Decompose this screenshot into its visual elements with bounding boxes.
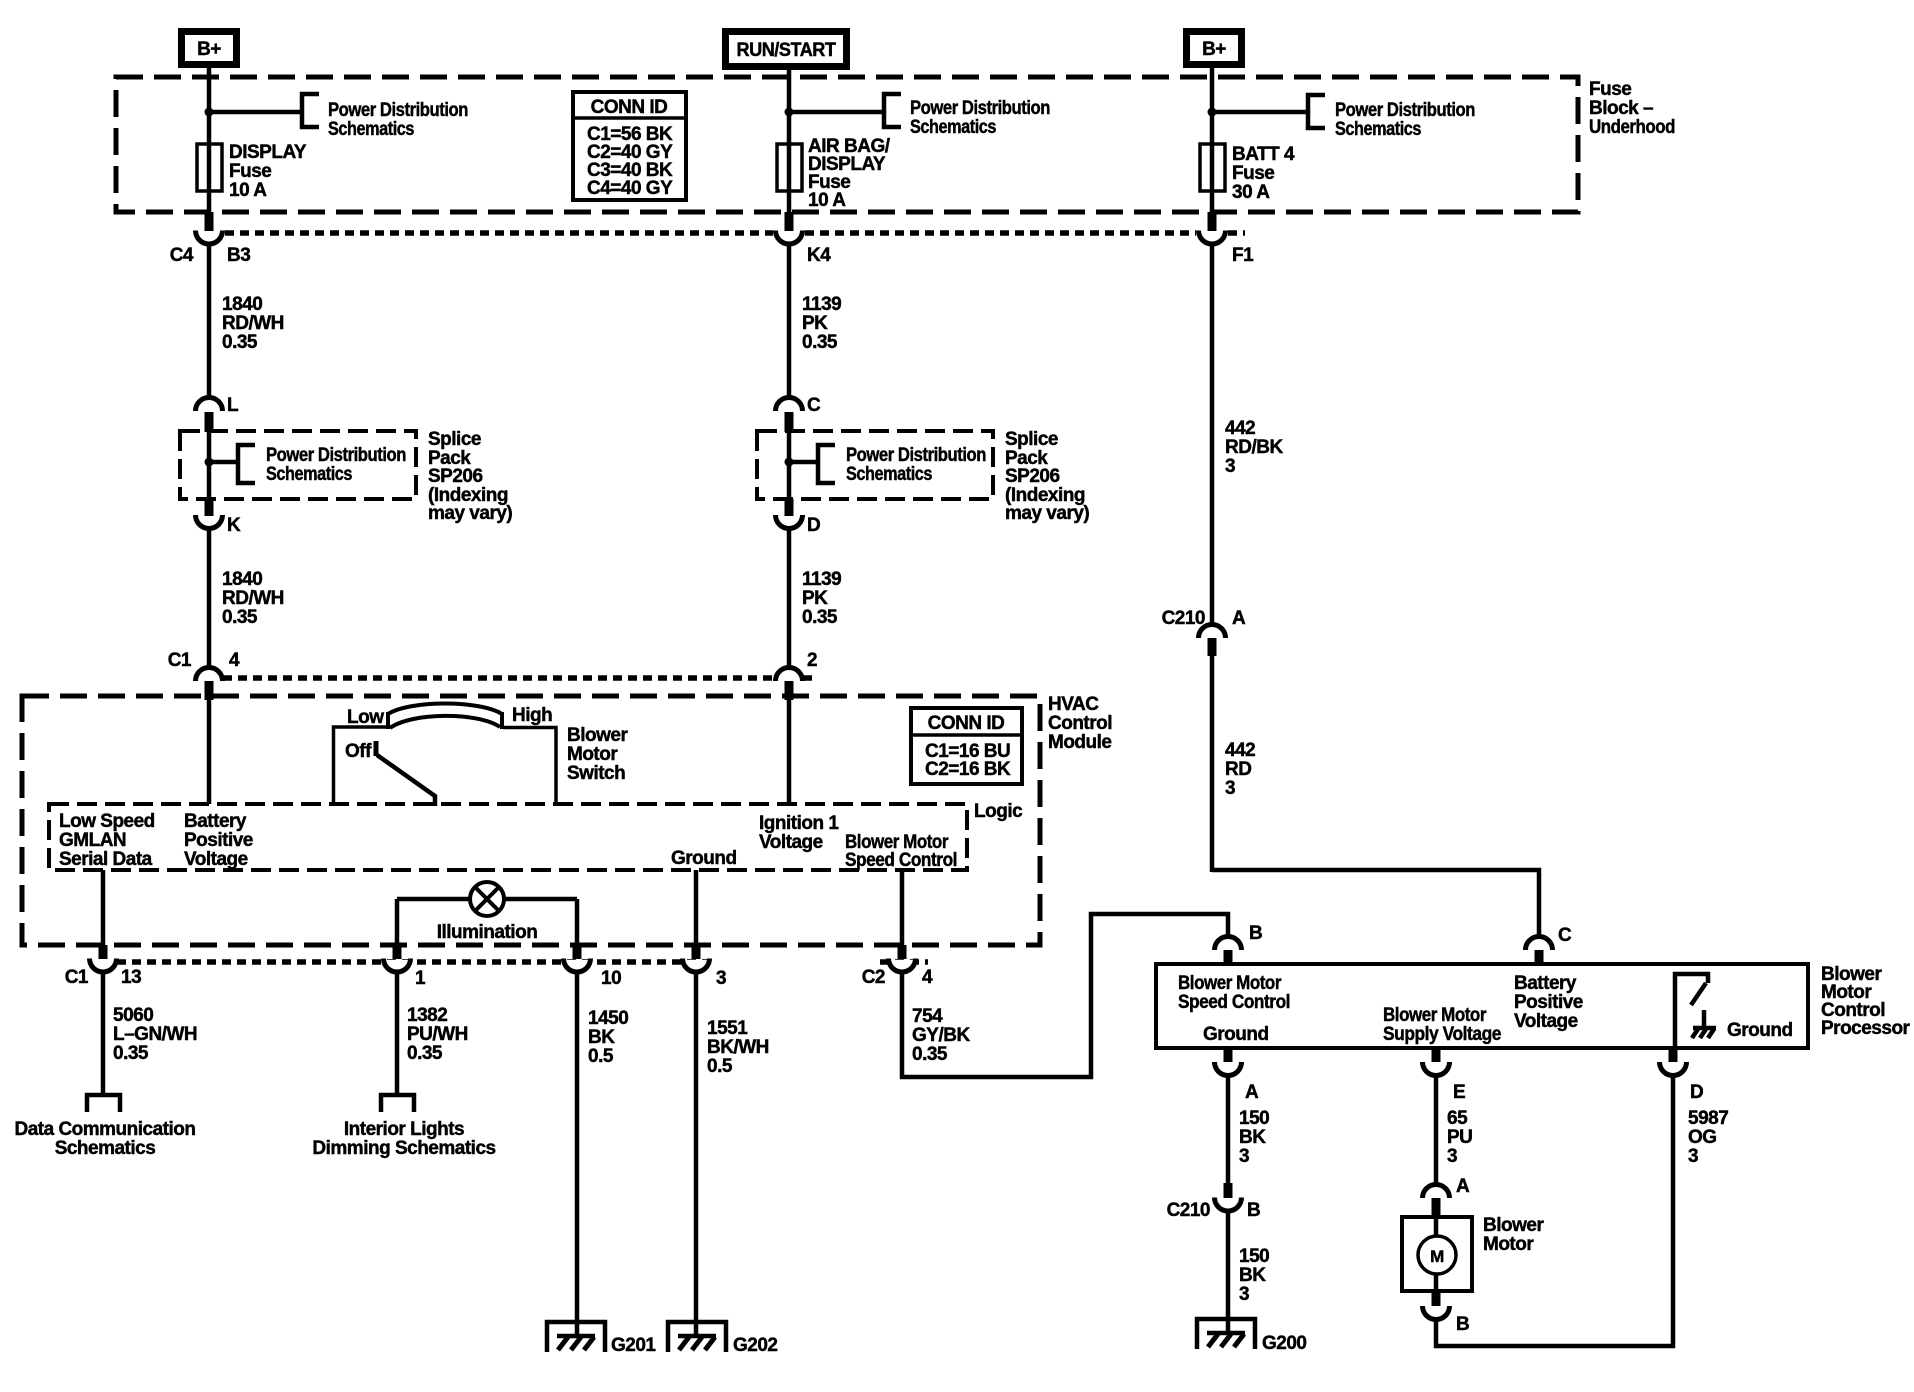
svg-text:B+: B+	[197, 39, 221, 60]
svg-text:10 A: 10 A	[808, 190, 846, 211]
svg-text:10: 10	[601, 968, 621, 989]
svg-text:10 A: 10 A	[229, 180, 267, 201]
svg-text:D: D	[807, 515, 820, 536]
svg-text:1139: 1139	[802, 569, 841, 590]
svg-text:Splice: Splice	[428, 429, 481, 450]
svg-text:3: 3	[1447, 1146, 1457, 1167]
svg-text:1551: 1551	[707, 1018, 748, 1039]
svg-text:Battery: Battery	[1514, 973, 1577, 994]
svg-text:Supply Voltage: Supply Voltage	[1383, 1024, 1501, 1045]
svg-text:RD: RD	[1225, 759, 1251, 780]
svg-text:DISPLAY: DISPLAY	[229, 142, 307, 163]
svg-text:13: 13	[121, 967, 141, 988]
svg-text:Motor: Motor	[1483, 1234, 1534, 1255]
svg-text:Speed Control: Speed Control	[1178, 992, 1290, 1013]
svg-text:Blower Motor: Blower Motor	[1178, 973, 1282, 994]
svg-text:5060: 5060	[113, 1005, 153, 1026]
svg-text:GY/BK: GY/BK	[912, 1025, 970, 1046]
svg-text:Power Distribution: Power Distribution	[328, 100, 468, 121]
svg-text:0.35: 0.35	[113, 1043, 149, 1064]
svg-text:Power Distribution: Power Distribution	[1335, 100, 1475, 121]
svg-text:CONN ID: CONN ID	[928, 713, 1005, 734]
svg-text:Splice: Splice	[1005, 429, 1058, 450]
svg-text:E: E	[1453, 1082, 1465, 1103]
svg-text:B: B	[1249, 923, 1262, 944]
svg-text:3: 3	[1225, 456, 1235, 477]
svg-text:Module: Module	[1048, 732, 1112, 753]
svg-text:Voltage: Voltage	[184, 849, 248, 870]
svg-text:3: 3	[1688, 1146, 1698, 1167]
svg-text:K: K	[227, 515, 241, 536]
svg-text:Ground: Ground	[671, 848, 737, 869]
svg-text:Block –: Block –	[1589, 98, 1653, 119]
svg-text:C2: C2	[862, 967, 885, 988]
svg-text:1382: 1382	[407, 1005, 447, 1026]
svg-text:Blower: Blower	[1483, 1215, 1544, 1236]
svg-text:C210: C210	[1162, 608, 1205, 629]
svg-text:Control: Control	[1048, 713, 1112, 734]
svg-text:Underhood: Underhood	[1589, 117, 1675, 138]
svg-text:Serial Data: Serial Data	[59, 849, 153, 870]
svg-text:C1: C1	[168, 650, 192, 671]
svg-text:Interior Lights: Interior Lights	[344, 1119, 464, 1140]
svg-text:Ground: Ground	[1727, 1020, 1793, 1041]
svg-text:Voltage: Voltage	[1514, 1011, 1578, 1032]
svg-text:3: 3	[1239, 1146, 1249, 1167]
svg-text:RD/WH: RD/WH	[222, 588, 284, 609]
svg-text:GMLAN: GMLAN	[59, 830, 126, 851]
svg-text:1: 1	[415, 968, 426, 989]
svg-text:A: A	[1245, 1082, 1259, 1103]
svg-text:A: A	[1232, 608, 1246, 629]
svg-text:L–GN/WH: L–GN/WH	[113, 1024, 197, 1045]
svg-text:Speed Control: Speed Control	[845, 850, 957, 871]
svg-text:CONN ID: CONN ID	[591, 97, 668, 118]
svg-text:442: 442	[1225, 740, 1255, 761]
svg-text:2: 2	[807, 650, 817, 671]
svg-text:Off: Off	[345, 741, 372, 762]
svg-text:150: 150	[1239, 1108, 1269, 1129]
svg-text:High: High	[512, 705, 552, 726]
svg-text:C210: C210	[1167, 1200, 1210, 1221]
svg-text:Illumination: Illumination	[437, 922, 538, 943]
svg-text:B3: B3	[227, 245, 250, 266]
svg-text:150: 150	[1239, 1246, 1269, 1267]
svg-text:Power Distribution: Power Distribution	[266, 445, 406, 466]
svg-text:30 A: 30 A	[1232, 182, 1270, 203]
svg-text:Dimming Schematics: Dimming Schematics	[312, 1138, 495, 1159]
svg-text:3: 3	[1225, 778, 1235, 799]
svg-text:Schematics: Schematics	[266, 464, 352, 485]
svg-text:5987: 5987	[1688, 1108, 1728, 1129]
svg-text:65: 65	[1447, 1108, 1468, 1129]
svg-text:Fuse: Fuse	[1232, 163, 1274, 184]
svg-text:1450: 1450	[588, 1008, 628, 1029]
svg-text:RD/BK: RD/BK	[1225, 437, 1283, 458]
svg-text:HVAC: HVAC	[1048, 694, 1099, 715]
svg-text:B: B	[1247, 1200, 1260, 1221]
svg-text:Processor: Processor	[1821, 1018, 1911, 1039]
svg-text:Blower: Blower	[567, 725, 628, 746]
svg-text:C2=16 BK: C2=16 BK	[925, 759, 1011, 780]
svg-text:RD/WH: RD/WH	[222, 313, 284, 334]
svg-text:Schematics: Schematics	[328, 119, 414, 140]
svg-text:Positive: Positive	[184, 830, 253, 851]
svg-text:Positive: Positive	[1514, 992, 1583, 1013]
svg-text:Ground: Ground	[1203, 1024, 1269, 1045]
svg-text:Data Communication: Data Communication	[14, 1119, 195, 1140]
svg-text:0.5: 0.5	[707, 1056, 733, 1077]
svg-text:C: C	[807, 395, 821, 416]
svg-text:B+: B+	[1202, 39, 1226, 60]
svg-text:0.35: 0.35	[802, 607, 838, 628]
svg-text:L: L	[227, 395, 239, 416]
svg-text:OG: OG	[1688, 1127, 1717, 1148]
svg-text:K4: K4	[807, 245, 831, 266]
svg-text:1139: 1139	[802, 294, 841, 315]
svg-text:0.5: 0.5	[588, 1046, 614, 1067]
svg-text:PK: PK	[802, 588, 828, 609]
svg-text:SP206: SP206	[428, 466, 483, 487]
svg-text:C1: C1	[65, 967, 89, 988]
svg-text:4: 4	[922, 967, 933, 988]
svg-text:BK/WH: BK/WH	[707, 1037, 769, 1058]
svg-text:BK: BK	[1239, 1265, 1266, 1286]
svg-text:Fuse: Fuse	[1589, 79, 1631, 100]
svg-text:0.35: 0.35	[912, 1044, 948, 1065]
svg-text:Schematics: Schematics	[910, 117, 996, 138]
svg-text:4: 4	[229, 650, 240, 671]
svg-text:Blower Motor: Blower Motor	[1383, 1005, 1487, 1026]
svg-text:Ignition 1: Ignition 1	[759, 813, 839, 834]
svg-text:BATT 4: BATT 4	[1232, 144, 1295, 165]
svg-text:G202: G202	[733, 1335, 777, 1356]
svg-text:B: B	[1456, 1314, 1469, 1335]
svg-text:0.35: 0.35	[802, 332, 838, 353]
svg-text:BK: BK	[588, 1027, 615, 1048]
svg-text:RUN/START: RUN/START	[737, 40, 837, 61]
svg-text:442: 442	[1225, 418, 1255, 439]
svg-text:Motor: Motor	[567, 744, 618, 765]
svg-text:C: C	[1558, 925, 1572, 946]
svg-text:Power Distribution: Power Distribution	[910, 98, 1050, 119]
svg-text:Low: Low	[347, 707, 384, 728]
svg-text:0.35: 0.35	[222, 607, 258, 628]
svg-text:SP206: SP206	[1005, 466, 1060, 487]
svg-text:Schematics: Schematics	[1335, 119, 1421, 140]
svg-text:754: 754	[912, 1006, 943, 1027]
svg-text:1840: 1840	[222, 294, 262, 315]
svg-text:Switch: Switch	[567, 763, 625, 784]
svg-text:Logic: Logic	[974, 801, 1023, 822]
svg-text:may vary): may vary)	[1005, 503, 1089, 524]
svg-text:PU: PU	[1447, 1127, 1472, 1148]
svg-text:BK: BK	[1239, 1127, 1266, 1148]
svg-text:Schematics: Schematics	[55, 1138, 156, 1159]
svg-text:D: D	[1690, 1082, 1703, 1103]
svg-text:M: M	[1430, 1247, 1444, 1266]
svg-text:0.35: 0.35	[407, 1043, 443, 1064]
svg-text:Power Distribution: Power Distribution	[846, 445, 986, 466]
svg-text:PK: PK	[802, 313, 828, 334]
svg-text:PU/WH: PU/WH	[407, 1024, 468, 1045]
svg-text:G201: G201	[611, 1335, 656, 1356]
svg-text:Schematics: Schematics	[846, 464, 932, 485]
svg-text:Voltage: Voltage	[759, 832, 823, 853]
svg-text:may vary): may vary)	[428, 503, 512, 524]
svg-text:3: 3	[716, 968, 726, 989]
svg-text:3: 3	[1239, 1284, 1249, 1305]
svg-text:1840: 1840	[222, 569, 262, 590]
svg-text:C4: C4	[170, 245, 194, 266]
svg-text:Low Speed: Low Speed	[59, 811, 155, 832]
svg-text:Fuse: Fuse	[229, 161, 271, 182]
svg-text:0.35: 0.35	[222, 332, 258, 353]
svg-text:C4=40 GY: C4=40 GY	[587, 178, 673, 199]
svg-text:F1: F1	[1232, 245, 1254, 266]
svg-text:A: A	[1456, 1176, 1470, 1197]
svg-text:Battery: Battery	[184, 811, 247, 832]
svg-text:G200: G200	[1262, 1333, 1306, 1354]
